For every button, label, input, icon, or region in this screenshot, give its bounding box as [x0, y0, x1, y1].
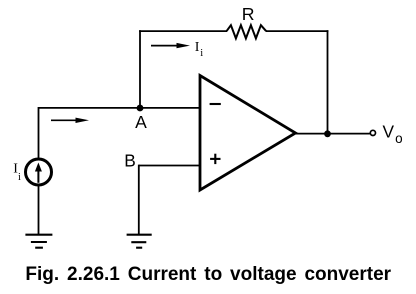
- svg-text:A: A: [135, 112, 147, 132]
- current arrow Ii (top): [151, 43, 190, 48]
- current source Ii: [26, 159, 52, 185]
- node A: [137, 105, 144, 112]
- wire: current source bottom to ground: [38, 186, 40, 235]
- non-inverting input marker (+): [210, 158, 220, 160]
- current direction arrow (up): [37, 169, 39, 183]
- resistor R: [227, 25, 267, 38]
- wire: node A up to feedback top: [139, 30, 141, 108]
- wire: node B horizontal to non-inverting input: [139, 165, 200, 167]
- wire: feedback top left lead: [139, 30, 227, 32]
- wire: node B down to ground: [138, 165, 140, 235]
- op-amp U1: [200, 76, 296, 191]
- svg-text:i: i: [18, 172, 21, 183]
- ground (node B): [127, 235, 152, 248]
- svg-text:Fig. 2.26.1 Current to voltage: Fig. 2.26.1 Current to voltage converter: [25, 264, 391, 285]
- wire: left source branch horizontal to inverting input: [39, 108, 201, 159]
- svg-text:I: I: [195, 40, 200, 55]
- output node junction: [324, 130, 331, 137]
- inverting input marker (-): [210, 103, 221, 105]
- svg-text:B: B: [124, 150, 136, 170]
- svg-text:o: o: [395, 131, 403, 146]
- svg-text:V: V: [383, 122, 395, 142]
- wire: op-amp output to terminal: [295, 133, 370, 135]
- wire: feedback top right lead: [266, 30, 328, 32]
- output terminal (open circle): [370, 130, 375, 135]
- current arrow into node A (left): [51, 118, 89, 123]
- svg-text:i: i: [200, 48, 203, 59]
- ground (left, below current source): [25, 235, 52, 248]
- wire: feedback right vertical down to output node: [327, 30, 329, 134]
- svg-text:R: R: [242, 4, 255, 24]
